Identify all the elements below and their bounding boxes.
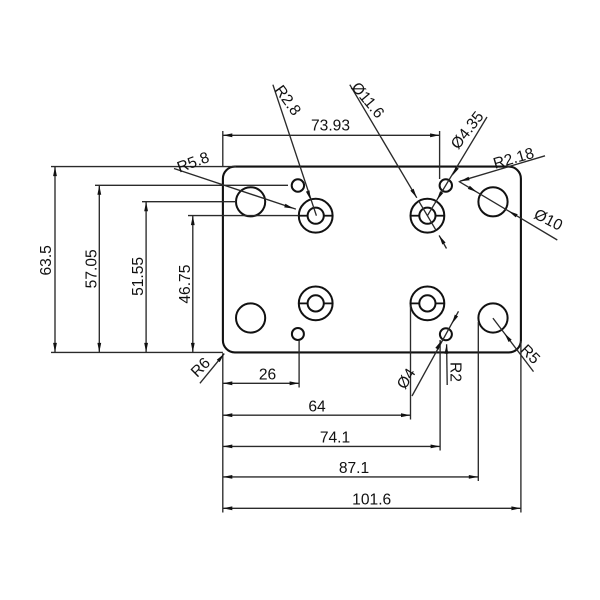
dimension 57.05 line bbox=[98, 185, 100, 352]
leader R2 arrow bbox=[445, 344, 449, 354]
leader Ø4.35 arrows bbox=[437, 167, 459, 201]
dimension 46.75 line bbox=[192, 216, 194, 353]
dimension 26 arrows bbox=[223, 381, 299, 385]
big hole bottom-left Ø10 bbox=[236, 303, 265, 332]
leader R6 arrow bbox=[217, 354, 225, 363]
leader R2.18 arrow bbox=[460, 177, 470, 182]
small hole top-left Ø4.35 bbox=[292, 179, 304, 191]
dimension 63.5 line bbox=[54, 167, 56, 353]
counterbore hole bottom-right bbox=[411, 287, 445, 321]
dimension 87.1 arrows bbox=[223, 475, 478, 479]
extension line big hole tangent (for 87.1) bbox=[477, 322, 479, 481]
leader R5.8 line bbox=[174, 169, 296, 210]
dimension 87.1 line bbox=[223, 476, 478, 478]
svg-text:101.6: 101.6 bbox=[352, 492, 391, 509]
extension line big-hole row (for 51.55) bbox=[142, 201, 236, 203]
svg-text:87.1: 87.1 bbox=[339, 460, 369, 477]
extension line above plate left edge (for 73.93) bbox=[222, 131, 224, 167]
counterbore hole bottom-left bbox=[299, 287, 333, 321]
extension line above small hole tangent (for 73.93) bbox=[439, 131, 441, 179]
dimension 74.1 line bbox=[223, 445, 440, 447]
extension line below plate left edge bbox=[222, 353, 224, 512]
leader R5.8 arrow bbox=[284, 204, 294, 209]
svg-text:R2: R2 bbox=[447, 362, 464, 382]
leader R6 line bbox=[200, 354, 224, 384]
small hole top-right Ø4.35 (R2.18) bbox=[440, 179, 452, 191]
small hole bottom-left Ø4 bbox=[292, 328, 304, 340]
dimension 64 line bbox=[223, 414, 411, 416]
big hole bottom-right Ø10 (R5) bbox=[478, 303, 507, 332]
dimension 73.93 line bbox=[223, 134, 440, 136]
extension line below small hole (for 26) bbox=[298, 340, 300, 387]
dimension 26 line bbox=[223, 382, 299, 384]
dimension 57.05 arrows bbox=[97, 185, 101, 352]
extension line top edge left (for 63.5) bbox=[51, 166, 236, 168]
plate outline (101.6 x 63.5 rounded rectangle) bbox=[223, 167, 521, 353]
extension line counterbore tangent (for 64) bbox=[410, 306, 412, 420]
dimension 74.1 arrows bbox=[223, 445, 440, 449]
counterbore hole top-left R5.8/R2.8 bbox=[299, 199, 333, 233]
dimension 73.93 arrows bbox=[223, 133, 440, 137]
svg-text:51.55: 51.55 bbox=[130, 257, 147, 296]
counterbore hole top-right Ø11.6 bbox=[411, 199, 445, 233]
dimension 51.55 arrows bbox=[144, 202, 148, 353]
leader Ø10 line bbox=[459, 181, 558, 240]
dimension 46.75 arrows bbox=[191, 216, 195, 353]
extension line below plate right edge (for 101.6) bbox=[520, 341, 522, 513]
dimension 63.5 arrows bbox=[53, 167, 57, 353]
svg-text:57.05: 57.05 bbox=[83, 249, 100, 288]
leader R5 arrow bbox=[504, 333, 511, 342]
leader Ø4 arrows bbox=[435, 315, 458, 350]
svg-text:64: 64 bbox=[308, 398, 326, 415]
dimension 64 arrows bbox=[223, 413, 411, 417]
dimension 101.6 arrows bbox=[223, 506, 521, 510]
leader Ø4 line bbox=[412, 311, 459, 396]
leader Ø11.6 arrows bbox=[410, 189, 445, 245]
svg-text:73.93: 73.93 bbox=[311, 118, 350, 135]
small hole bottom-right Ø4 (R2) bbox=[440, 328, 452, 340]
dimension 101.6 line bbox=[223, 507, 521, 509]
leader Ø11.6 line bbox=[350, 85, 447, 249]
big hole top-right Ø10 bbox=[478, 187, 507, 216]
leader R2.18 line bbox=[460, 156, 545, 181]
extension line bottom edge left (shared) bbox=[51, 351, 223, 353]
leader R2.8 line bbox=[273, 85, 317, 216]
leader R2 line bbox=[446, 344, 449, 385]
extension line small hole tangent (for 74.1) bbox=[439, 340, 441, 451]
big hole top-left Ø10 bbox=[236, 187, 265, 216]
leader R5 line bbox=[493, 318, 534, 372]
svg-text:63.5: 63.5 bbox=[38, 245, 55, 276]
extension line counterbore row (for 46.75) bbox=[188, 215, 299, 217]
extension line small-hole row (for 57.05) bbox=[95, 184, 288, 186]
dimension 51.55 line bbox=[145, 202, 147, 353]
leader Ø4.35 line bbox=[427, 117, 487, 216]
svg-text:46.75: 46.75 bbox=[177, 264, 194, 303]
svg-text:26: 26 bbox=[259, 366, 276, 383]
leader Ø10 arrows bbox=[468, 186, 518, 218]
leader R2.8 arrow bbox=[306, 190, 311, 200]
svg-text:74.1: 74.1 bbox=[320, 430, 350, 447]
